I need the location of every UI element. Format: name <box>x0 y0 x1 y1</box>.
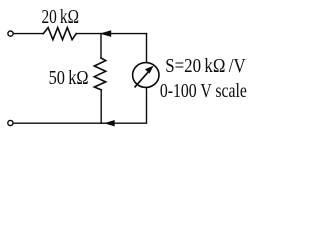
current arrow (bottom wire, pointing left into bottom node) <box>104 120 115 126</box>
resistor 50 kOhm (vertical zigzag) <box>94 58 105 90</box>
current arrow (top wire, pointing left into node A) <box>100 30 112 37</box>
svg-text:S=20 kΩ /V: S=20 kΩ /V <box>165 56 246 77</box>
resistor 20 kOhm (horizontal zigzag) <box>43 28 76 40</box>
wire (junction down to 50k resistor top) <box>100 34 102 58</box>
voltmeter needle arrowhead <box>145 66 154 74</box>
svg-text:50 kΩ: 50 kΩ <box>49 68 89 89</box>
wire (top-right corner down to meter) <box>146 34 148 63</box>
svg-text:0-100 V scale: 0-100 V scale <box>160 81 247 102</box>
wire (50k resistor bottom to bottom rail) <box>100 90 102 123</box>
voltmeter U1 (circle body) <box>133 63 159 88</box>
wire (meter bottom down to bottom rail corner) <box>101 87 147 123</box>
wire (bottom rail) <box>14 122 101 124</box>
wire (top, resistor to right corner) <box>76 33 146 35</box>
terminal T1 (top-left open circle) <box>8 31 13 36</box>
terminal T2 (bottom-left open circle) <box>8 120 13 125</box>
voltmeter needle <box>135 72 149 87</box>
wire (top-left lead to resistor) <box>14 33 44 35</box>
svg-text:20 kΩ: 20 kΩ <box>42 7 80 28</box>
